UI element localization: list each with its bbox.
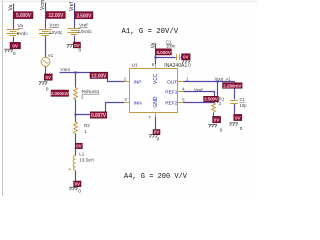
svg-text:A4, G = 200 V/V: A4, G = 200 V/V [124, 173, 188, 181]
svg-text:L1: L1 [79, 152, 85, 157]
svg-text:Vref: Vref [79, 23, 88, 29]
svg-text:12.00V: 12.00V [48, 13, 64, 19]
svg-text:0V: 0V [235, 115, 242, 120]
svg-text:Vref: Vref [69, 1, 75, 11]
svg-text:0.007V: 0.007V [91, 113, 107, 119]
svg-text:2.280mV: 2.280mV [223, 83, 242, 88]
svg-text:Vsm: Vsm [61, 67, 71, 73]
svg-text:0: 0 [46, 86, 49, 91]
svg-text:5Vdc: 5Vdc [17, 31, 29, 37]
svg-text:0V: 0V [154, 130, 161, 135]
svg-text:V1: V1 [48, 53, 54, 58]
svg-text:Va: Va [18, 23, 24, 29]
svg-text:Vout_A1: Vout_A1 [215, 77, 232, 82]
svg-text:Vcm: Vcm [49, 22, 59, 28]
svg-text:0V: 0V [74, 182, 81, 187]
svg-text:0: 0 [79, 48, 82, 53]
svg-text:12.00V: 12.00V [91, 73, 107, 79]
svg-text:5.000V: 5.000V [156, 50, 171, 56]
svg-text:0: 0 [240, 126, 243, 131]
svg-text:GND: GND [153, 96, 159, 108]
svg-text:REF2: REF2 [165, 100, 178, 106]
svg-text:A1, G = 20V/V: A1, G = 20V/V [122, 28, 179, 36]
svg-text:Vref: Vref [194, 87, 203, 93]
svg-text:0: 0 [157, 137, 160, 142]
svg-text:13.3uH: 13.3uH [79, 157, 94, 162]
svg-text:2.500V: 2.500V [204, 97, 219, 102]
svg-text:Vcm: Vcm [40, 0, 46, 10]
svg-text:Va: Va [150, 42, 156, 48]
svg-text:0: 0 [78, 188, 81, 193]
svg-text:0V: 0V [76, 144, 83, 149]
svg-text:10p: 10p [240, 103, 248, 108]
svg-text:R2: R2 [84, 123, 90, 128]
svg-text:0: 0 [13, 51, 16, 56]
svg-text:INA240A1: INA240A1 [164, 63, 187, 69]
svg-text:0V: 0V [214, 118, 221, 123]
svg-text:0V: 0V [12, 43, 19, 48]
svg-text:12Vdc: 12Vdc [49, 30, 63, 36]
svg-text:INN: INN [134, 100, 143, 106]
svg-text:0: 0 [188, 63, 191, 68]
svg-text:U1: U1 [132, 63, 138, 69]
svg-text:C1: C1 [240, 97, 246, 102]
svg-text:0: 0 [220, 128, 223, 133]
svg-text:5.000V: 5.000V [16, 13, 32, 19]
svg-text:Rshunt1: Rshunt1 [82, 89, 100, 95]
svg-text:Va: Va [8, 5, 14, 11]
svg-text:0V: 0V [45, 75, 52, 80]
svg-text:0V: 0V [183, 55, 190, 60]
svg-text:2.500V: 2.500V [76, 13, 92, 19]
svg-text:100n: 100n [166, 43, 176, 48]
svg-text:INP: INP [134, 79, 142, 85]
svg-text:2.5Vdc: 2.5Vdc [77, 29, 93, 35]
svg-text:REF1: REF1 [165, 90, 178, 96]
svg-text:VCC: VCC [153, 73, 159, 84]
svg-text:2.000mV: 2.000mV [51, 91, 70, 96]
svg-text:OUT: OUT [167, 79, 177, 85]
